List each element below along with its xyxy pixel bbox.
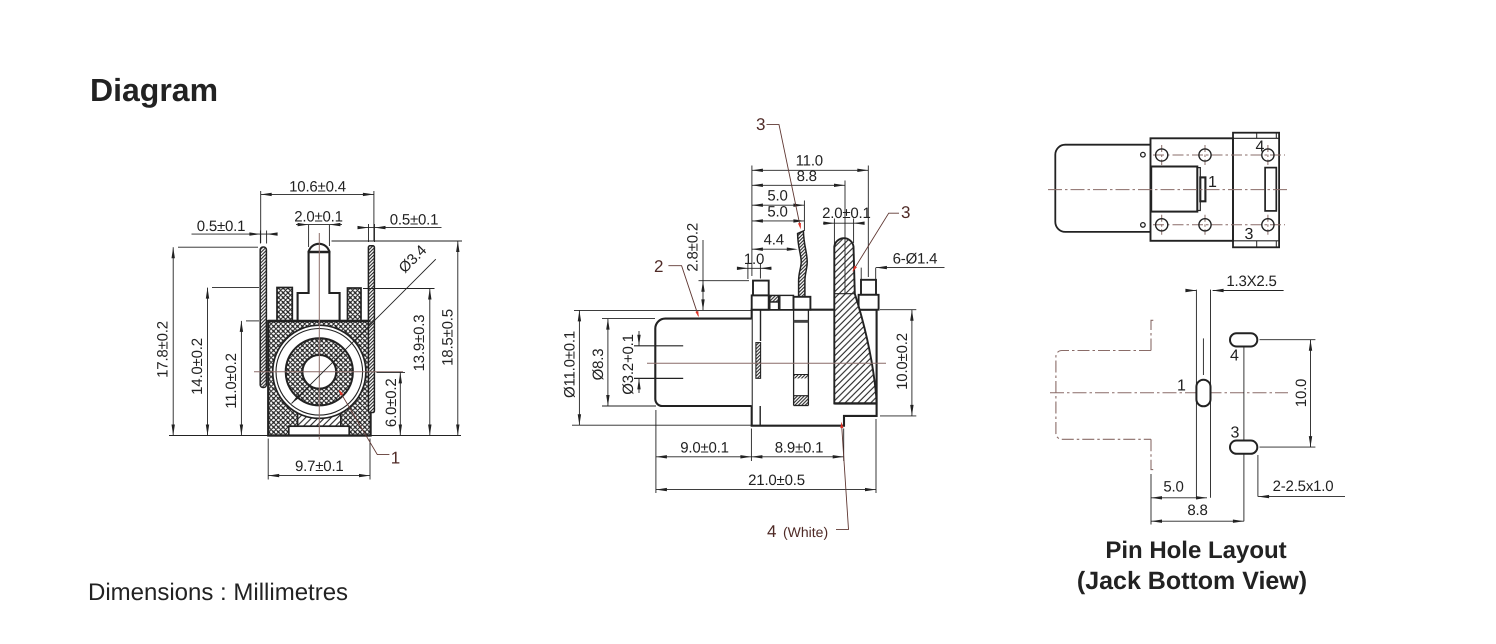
pin holes (6x) [1156, 149, 1168, 161]
terminal 4 upper box [861, 280, 876, 295]
svg-text:4: 4 [1230, 347, 1239, 364]
callout 2-2.5x1.0 [1257, 455, 1259, 497]
svg-text:3: 3 [901, 203, 910, 222]
callout 1.3X2.5 [1186, 290, 1196, 292]
svg-text:4.4: 4.4 [764, 231, 784, 248]
jack bottom view: rear block [1233, 133, 1279, 248]
label 1 leader [340, 391, 390, 455]
insulator block [1151, 167, 1197, 212]
svg-text:Ø8.3: Ø8.3 [590, 349, 607, 381]
svg-text:1: 1 [1208, 174, 1217, 191]
main body block [268, 321, 370, 436]
ear right [348, 288, 362, 321]
svg-text:Pin Hole Layout: Pin Hole Layout [1105, 537, 1286, 564]
svg-text:1.3X2.5: 1.3X2.5 [1226, 273, 1276, 290]
svg-text:2.0±0.1: 2.0±0.1 [294, 209, 343, 226]
svg-text:3: 3 [1231, 424, 1240, 441]
socket hatch bands [794, 375, 809, 379]
svg-text:5.0: 5.0 [767, 188, 787, 205]
side ground plate left [260, 247, 266, 388]
barrel bore lines [634, 346, 683, 379]
dim 4.4 [752, 248, 788, 250]
centerline horizontal [647, 362, 886, 364]
body block outline [752, 310, 877, 426]
svg-text:9.7±0.1: 9.7±0.1 [295, 458, 344, 475]
dim 0.5±0.1 right plate [369, 224, 375, 242]
bottom datum line [169, 435, 461, 437]
wavy spring contact (pin 3) [798, 231, 808, 297]
svg-text:18.5±0.5: 18.5±0.5 [439, 309, 456, 366]
rear block slot [1265, 168, 1276, 211]
svg-text:10.0±0.2: 10.0±0.2 [894, 333, 911, 390]
svg-text:2.8±0.2: 2.8±0.2 [684, 223, 701, 272]
slot width extension lines [1196, 290, 1210, 498]
centerline horizontal [254, 371, 403, 373]
svg-text:4: 4 [1256, 139, 1265, 156]
center hole [302, 355, 336, 389]
leader Ø3.4 [292, 259, 436, 403]
flange hatched strip [756, 343, 761, 379]
svg-text:5.0: 5.0 [767, 203, 787, 220]
svg-text:10.6±0.4: 10.6±0.4 [289, 179, 346, 196]
label 3 right leader [853, 213, 899, 270]
dim 6.0±0.2 [377, 371, 406, 373]
dim 5.0 first [803, 201, 805, 232]
svg-text:21.0±0.5: 21.0±0.5 [748, 472, 805, 489]
jack bottom view: body plate [1151, 138, 1234, 241]
svg-text:5.0: 5.0 [1163, 479, 1183, 496]
svg-text:(White): (White) [783, 524, 828, 540]
dim 10.0 (layout) [1260, 340, 1316, 447]
pin 1 tab [1200, 177, 1205, 201]
svg-text:Ø3.2+0.1: Ø3.2+0.1 [620, 334, 637, 395]
side ground plate right [368, 246, 374, 413]
dim 21.0±0.5 [875, 419, 877, 493]
svg-text:3: 3 [756, 115, 765, 134]
dim 5.0 (layout) [1150, 474, 1152, 525]
main contact blade (pin 3) [834, 238, 876, 403]
dim 1.0 [748, 264, 761, 280]
dim 2.0±0.1 blade [834, 219, 853, 249]
svg-text:6-Ø1.4: 6-Ø1.4 [893, 250, 938, 267]
dim Ø8.3 [602, 319, 656, 406]
svg-text:8.9±0.1: 8.9±0.1 [775, 439, 824, 456]
svg-text:Diagram: Diagram [90, 72, 218, 108]
svg-text:14.0±0.2: 14.0±0.2 [189, 338, 206, 395]
dim 2.0±0.1 pin width [309, 225, 330, 247]
dim 11.0 top [752, 166, 868, 278]
svg-text:1: 1 [391, 449, 400, 468]
svg-text:13.9±0.3: 13.9±0.3 [411, 315, 428, 372]
terminal 2 lower box [752, 295, 769, 309]
label 4 (White) leader [836, 425, 849, 530]
small holes on barrel [1141, 152, 1146, 157]
svg-text:6.0±0.2: 6.0±0.2 [383, 379, 400, 428]
svg-text:9.0±0.1: 9.0±0.1 [680, 439, 729, 456]
bottom insulator strip (diagonal hatch) [298, 405, 341, 426]
dim 11.0±0.2 [246, 320, 259, 322]
small hatched block [770, 295, 779, 302]
svg-text:3: 3 [1245, 226, 1254, 243]
barrel cylinder [655, 319, 751, 406]
dim 14.0±0.2 [212, 287, 259, 289]
svg-text:8.8: 8.8 [797, 168, 817, 185]
svg-text:0.5±0.1: 0.5±0.1 [197, 218, 246, 235]
center pin with dome tip [298, 244, 340, 321]
dim 8.9±0.1 [843, 429, 845, 462]
hole pin 1 (slot) [1196, 380, 1210, 407]
flange back edge upper [760, 310, 762, 341]
svg-text:17.8±0.2: 17.8±0.2 [155, 321, 172, 378]
dim Ø11.0±0.1 [572, 310, 752, 425]
dim 10.0±0.2 [880, 310, 916, 416]
dim 13.9±0.3 [363, 288, 435, 290]
bottom tab [289, 426, 349, 435]
centerline main axis [1048, 189, 1288, 191]
svg-text:0.5±0.1: 0.5±0.1 [390, 212, 439, 229]
dim 0.5±0.1 left plate [260, 231, 266, 244]
hatched contact annulus [286, 338, 353, 405]
svg-text:1: 1 [1177, 377, 1186, 394]
dim 9.7±0.1 [268, 439, 370, 480]
svg-text:2-2.5x1.0: 2-2.5x1.0 [1273, 478, 1334, 495]
svg-text:11.0±0.2: 11.0±0.2 [223, 353, 240, 409]
hole pin 3 [1230, 441, 1257, 454]
pins 3-4 column line [1243, 347, 1245, 522]
terminal 2 upper box [753, 281, 769, 296]
svg-text:2: 2 [654, 257, 663, 276]
label 3 left leader [767, 125, 801, 227]
hole pin 4 [1230, 333, 1257, 346]
layout centerline [1050, 392, 1288, 394]
centerline vertical [318, 233, 320, 440]
label 2 leader [668, 266, 698, 316]
callout 6-Ø1.4 [861, 268, 876, 280]
footprint outline (dash-dot) [1056, 320, 1155, 469]
dim 2.8±0.2 [699, 280, 750, 282]
svg-text:Ø11.0±0.1: Ø11.0±0.1 [561, 331, 578, 398]
svg-text:(Jack Bottom View): (Jack Bottom View) [1077, 567, 1307, 595]
svg-text:4: 4 [767, 522, 776, 541]
dim 9.0±0.1 [656, 410, 752, 493]
svg-text:10.0: 10.0 [1293, 379, 1310, 407]
inner socket column [794, 310, 809, 406]
flange back edge lower (peg) [759, 406, 761, 426]
spring base box [794, 297, 811, 310]
ear left [277, 288, 292, 322]
pin row centerlines [1153, 155, 1285, 225]
dim 18.5±0.5 [332, 240, 463, 242]
white block [780, 295, 794, 309]
svg-text:Dimensions : Millimetres: Dimensions : Millimetres [88, 579, 348, 606]
terminal 4 lower box [859, 295, 879, 310]
barrel outer ring [273, 325, 366, 418]
svg-text:2.0±0.1: 2.0±0.1 [822, 205, 871, 222]
jack bottom view: barrel [1055, 145, 1150, 232]
dim 10.6±0.4 [261, 191, 374, 243]
dim 8.8 (layout) [1151, 520, 1244, 522]
svg-text:1.0: 1.0 [744, 251, 764, 268]
dim 17.8±0.2 [178, 246, 258, 248]
dim 5.0 second [752, 220, 805, 222]
dim 8.8 [844, 181, 846, 295]
svg-text:8.8: 8.8 [1187, 502, 1207, 519]
